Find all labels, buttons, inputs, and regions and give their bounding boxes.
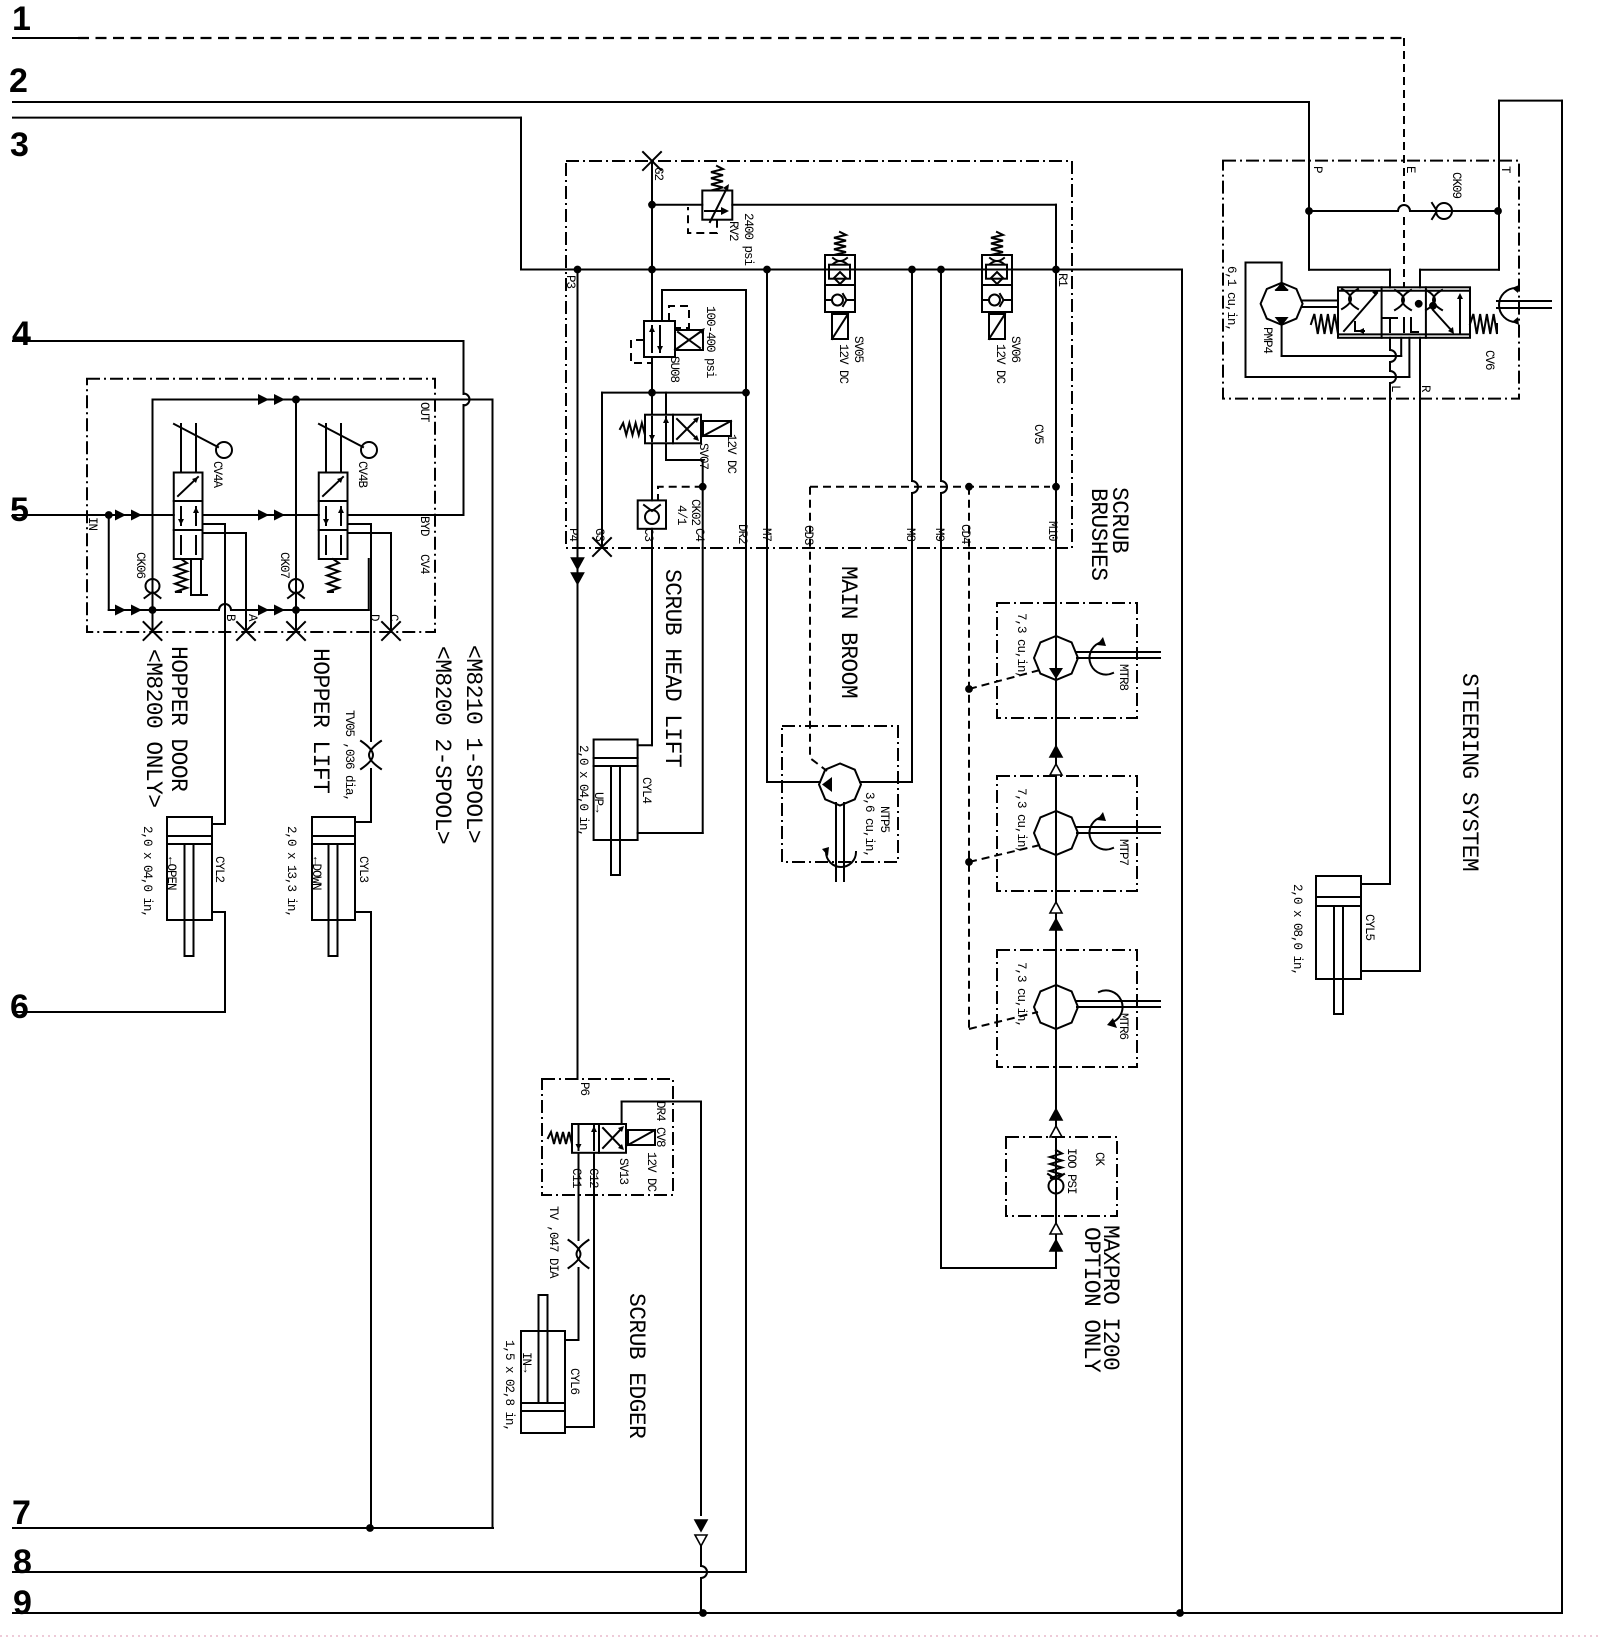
valve SU08 arrows <box>652 326 660 352</box>
solenoid SV13 <box>628 1130 655 1145</box>
wire C3 to CK02 <box>651 443 653 500</box>
svg-text:SCRUB HEAD LIFT: SCRUB HEAD LIFT <box>659 569 685 767</box>
plug port C <box>382 622 400 640</box>
valve SU08 body <box>644 321 675 357</box>
enclosure CV6 <box>1223 161 1519 399</box>
wire B to CYL2 <box>224 632 226 824</box>
valve CV6 envelope <box>1338 287 1470 338</box>
svg-text:STEERING SYSTEM: STEERING SYSTEM <box>1456 673 1482 871</box>
svg-text:HOPPER DOOR: HOPPER DOOR <box>165 646 191 792</box>
wire M8 to NTP5 <box>860 781 912 783</box>
flow arrow DR4 b <box>695 1535 707 1546</box>
wire port D stub <box>348 523 372 525</box>
rotation arrow MTR8 <box>1089 643 1113 675</box>
check valve CK02 body <box>638 500 666 528</box>
valve SV05 <box>825 255 855 312</box>
relief valve RV2 body <box>702 191 732 220</box>
plug G3 <box>593 538 611 556</box>
solenoid SU08 <box>675 330 703 350</box>
svg-text:M8: M8 <box>903 528 917 542</box>
wire line-6 <box>13 1011 225 1013</box>
svg-text:CK09: CK09 <box>1449 172 1463 199</box>
rotation arrow NTP5 <box>826 852 856 867</box>
wire SU08 outlet <box>651 357 653 393</box>
svg-text:CK: CK <box>1092 1152 1106 1167</box>
svg-text:CV4B: CV4B <box>355 461 369 489</box>
wire P3-P4 riser <box>577 270 579 549</box>
pilot CK02 dashed <box>658 487 703 501</box>
svg-text:2: 2 <box>9 62 28 100</box>
svg-text:2,0 x 04,0 in,: 2,0 x 04,0 in, <box>576 745 590 836</box>
svg-text:7,3 cu,in,: 7,3 cu,in, <box>1014 613 1028 678</box>
flow arrows lower gallery mid <box>258 605 269 616</box>
svg-text:P6: P6 <box>577 1082 591 1096</box>
plug port B-CK06 <box>144 622 162 640</box>
relief valve RV2 arrow <box>705 210 725 212</box>
junction G2 bus <box>648 266 656 274</box>
spring CV4A <box>175 559 187 592</box>
svg-text:3,6 cu,in,: 3,6 cu,in, <box>862 792 876 857</box>
wire G3 drop <box>601 393 603 546</box>
pilot SU08 dashed left <box>631 340 652 363</box>
enclosure CK maxpro <box>1006 1137 1117 1216</box>
wire line-3 <box>13 117 521 119</box>
cylinder CYL2 <box>167 817 212 920</box>
lever CV4B <box>325 424 327 473</box>
case drain MTR8 dashed <box>969 670 1040 689</box>
junction C4 pilot <box>699 483 707 491</box>
wire T return right edge <box>1561 101 1563 1613</box>
plug port A <box>237 622 255 640</box>
lever CV4A <box>180 424 182 473</box>
shaft MTP7 <box>1077 826 1160 828</box>
spring RV2 <box>711 166 723 191</box>
motor MTR6 <box>1034 985 1078 1029</box>
svg-text:D: D <box>367 614 381 621</box>
junction M9 bus <box>937 266 945 274</box>
wire E dashed drop <box>1403 38 1405 205</box>
flow arrow chain a1 <box>1050 746 1062 757</box>
svg-text:SV13: SV13 <box>616 1158 630 1185</box>
orifice plug G2 <box>643 152 661 170</box>
wire M9 drop <box>940 270 942 482</box>
svg-text:MTP7: MTP7 <box>1116 839 1130 866</box>
cylinder CYL5 <box>1316 876 1361 979</box>
valve SV07 body <box>645 415 673 444</box>
svg-text:12V DC: 12V DC <box>836 344 850 384</box>
wire line-2 drop P <box>1308 102 1310 270</box>
flow arrow chain b2 <box>1050 919 1062 930</box>
svg-text:CYL4: CYL4 <box>639 777 653 804</box>
enclosure CV4 <box>87 379 435 632</box>
spring CV6 left <box>1311 314 1338 334</box>
motor MTP7 <box>1034 811 1078 855</box>
svg-text:C: C <box>386 614 400 621</box>
enclosure MTR8 <box>997 603 1137 718</box>
flow arrow P4 b <box>572 573 584 584</box>
svg-text:←OPEN: ←OPEN <box>164 857 178 890</box>
spring SV06 <box>991 232 1003 255</box>
valve SV13 crossed arrows <box>603 1128 622 1148</box>
svg-text:G2: G2 <box>651 167 665 181</box>
svg-text:CYL3: CYL3 <box>356 856 370 883</box>
plug port CK07 <box>287 622 305 640</box>
spring SV13 <box>548 1132 572 1144</box>
spring CV6 right <box>1470 314 1497 334</box>
relief valve RV2 adjust <box>710 188 727 222</box>
svg-text:C3: C3 <box>641 528 655 542</box>
wire line-8 <box>13 1571 746 1573</box>
spring SV05 <box>834 232 846 255</box>
spring CV4B <box>327 559 339 592</box>
svg-text:2400 psi: 2400 psi <box>741 213 755 266</box>
wire P4 drop <box>577 548 579 1079</box>
steering wheel shaft <box>1497 300 1551 302</box>
wire lower gallery <box>109 609 219 611</box>
case drain MTP7 dashed <box>969 845 1040 862</box>
rotation arrow MTP7 <box>1089 818 1113 850</box>
flow arrow P4 a <box>572 558 584 569</box>
svg-text:CV6: CV6 <box>1482 350 1496 370</box>
flow arrows lower gallery left <box>115 605 126 616</box>
junction P3 <box>574 266 582 274</box>
flow arrows IN <box>115 510 126 521</box>
wire SV07 feed C4 branch <box>665 393 667 415</box>
junction line-9 / DR4 <box>699 1609 707 1617</box>
svg-text:7: 7 <box>12 1494 31 1532</box>
valve SV13 through arrows <box>579 1126 595 1150</box>
svg-text:<M8200 2-SPOOL>: <M8200 2-SPOOL> <box>429 646 455 844</box>
spring CK <box>1050 1150 1062 1178</box>
svg-text:4: 4 <box>12 315 31 353</box>
flow arrow chain d2 <box>1050 1240 1062 1251</box>
wire C3 drop to CYL4 <box>651 548 653 745</box>
junction line-9 / R1 return <box>1176 1609 1184 1617</box>
wire line-7 <box>13 1527 493 1529</box>
wire C4 step <box>665 443 667 460</box>
cylinder CYL6 <box>521 1331 565 1433</box>
flow arrow chain a2 <box>1050 764 1062 775</box>
case drain manifold CD3-CD4 dashed <box>810 486 1050 488</box>
wire D to TV05 <box>370 632 372 741</box>
valve CV6 junction b <box>1429 302 1437 310</box>
wire RV2 inlet <box>652 204 702 206</box>
check valve CK <box>1049 1179 1064 1194</box>
svg-text:2,0 x 04,0 in,: 2,0 x 04,0 in, <box>140 826 154 917</box>
wire CK07 riser <box>295 400 297 631</box>
wire CK09 line <box>1309 210 1398 212</box>
case drain CD3 dashed <box>810 487 827 771</box>
svg-text:5: 5 <box>10 491 29 529</box>
junction line-7 / CYL3 <box>366 1524 374 1532</box>
svg-text:IOO PSI: IOO PSI <box>1064 1148 1078 1194</box>
junction CK07 lower <box>292 606 300 614</box>
wire T riser <box>1498 101 1500 270</box>
svg-text:12V DC: 12V DC <box>993 344 1007 384</box>
enclosure MTR6 <box>997 950 1137 1067</box>
svg-text:2,0 x 13,3 in,: 2,0 x 13,3 in, <box>284 826 298 917</box>
enclosure MTP7 <box>997 776 1137 891</box>
check valve CK07 <box>289 579 303 593</box>
orifice TV05 <box>361 741 381 769</box>
wire R drop <box>1419 338 1421 399</box>
enclosure NTP5 <box>782 726 898 862</box>
valve CV4B arrows <box>323 477 343 496</box>
svg-text:OUT: OUT <box>417 402 431 423</box>
svg-text:SV06: SV06 <box>1008 336 1022 363</box>
pilot SU08 dashed upper <box>669 306 689 328</box>
svg-text:7,3 cu,in,: 7,3 cu,in, <box>1014 962 1028 1027</box>
shaft MTR8 <box>1077 651 1160 653</box>
wire maxpro return <box>941 1267 1056 1269</box>
wire pressure bus P3-R1 <box>521 269 1182 271</box>
wire port C stub <box>348 532 392 534</box>
svg-text:12V DC: 12V DC <box>644 1152 658 1192</box>
svg-text:CK02: CK02 <box>688 499 702 526</box>
check valve CK02 <box>645 510 659 524</box>
junction T CK09 <box>1494 207 1502 215</box>
cylinder CYL4 <box>594 740 638 841</box>
svg-text:DR4 CV8: DR4 CV8 <box>653 1101 667 1147</box>
wire M7 to NTP5 <box>767 781 820 783</box>
svg-text:CYL6: CYL6 <box>567 1368 581 1395</box>
wire line-1 (dashed supply) <box>13 37 78 39</box>
wire OUT line <box>153 399 493 401</box>
steering wheel arrow <box>1499 288 1516 322</box>
wire pump case line <box>1281 325 1283 356</box>
svg-text:CK06: CK06 <box>133 552 147 579</box>
svg-text:1,5 x 02,8 in,: 1,5 x 02,8 in, <box>502 1340 516 1431</box>
wire CYL2 rod port <box>212 911 225 913</box>
pump shaft <box>1302 300 1338 302</box>
valve CV6 mid spool <box>1383 318 1418 332</box>
valve SV07 through arrows <box>652 417 666 441</box>
svg-text:IN: IN <box>85 517 99 531</box>
svg-text:<M8200 ONLY>: <M8200 ONLY> <box>140 649 166 807</box>
wire CYL4 rod port C4 <box>638 832 703 834</box>
wire TV05 to CYL3 <box>370 769 372 822</box>
svg-text:2,0 x 08,0 in,: 2,0 x 08,0 in, <box>1290 884 1304 975</box>
wire bus to right drop <box>1181 270 1183 1614</box>
detent CV4A <box>191 559 201 595</box>
wire C11 <box>578 1153 580 1240</box>
valve CV4A arrows <box>178 477 198 496</box>
svg-text:CYL5: CYL5 <box>1362 914 1376 941</box>
wire line-4 <box>13 340 464 342</box>
wire C11 to CYL6 <box>578 1268 580 1340</box>
solenoid SV07 <box>703 421 731 436</box>
enclosure CV8 scrub edger <box>542 1079 673 1195</box>
wire pump suction loop <box>1281 263 1283 284</box>
wire L drop <box>1389 338 1391 350</box>
flow arrows OUT <box>258 394 269 405</box>
case drain CD4 dashed riser <box>968 487 970 1029</box>
svg-text:C11: C11 <box>569 1168 583 1188</box>
wire line-3 drop <box>520 118 522 270</box>
junction M7 bus <box>763 266 771 274</box>
flow arrow chain c1 <box>1050 1109 1062 1120</box>
wire line-9 <box>13 1612 1561 1614</box>
svg-text:G3: G3 <box>592 528 606 542</box>
wire port A stub <box>203 532 247 534</box>
svg-text:<M8210 1-SPOOL>: <M8210 1-SPOOL> <box>460 645 486 843</box>
svg-text:E: E <box>1403 166 1417 173</box>
svg-text:1: 1 <box>12 0 31 38</box>
svg-text:TV ,047 DIA: TV ,047 DIA <box>546 1206 560 1279</box>
cylinder CYL3 <box>312 817 355 920</box>
page boundary (pink dotted) <box>0 1635 1600 1637</box>
junction OUT/CK07 <box>292 396 300 404</box>
svg-text:8: 8 <box>13 1543 32 1581</box>
junction CD4 MTR8 <box>965 685 973 693</box>
svg-text:100-400 psi: 100-400 psi <box>703 306 717 378</box>
junction M8 bus <box>908 266 916 274</box>
valve CV6 right section <box>1433 310 1452 331</box>
shaft NTP5 <box>835 803 837 881</box>
svg-text:MAIN BROOM: MAIN BROOM <box>835 566 861 698</box>
svg-text:PMP4: PMP4 <box>1260 327 1274 354</box>
svg-text:OPTION ONLY: OPTION ONLY <box>1078 1227 1104 1373</box>
svg-text:RV2: RV2 <box>726 221 740 241</box>
svg-text:7,3 cu,in,: 7,3 cu,in, <box>1014 788 1028 853</box>
valve SV07 crossed arrows <box>677 419 697 439</box>
wire OUT drop to line-7 <box>492 400 494 1529</box>
wire BYD inside <box>348 514 436 516</box>
svg-text:TV05 ,036 dia,: TV05 ,036 dia, <box>342 710 356 801</box>
valve CV4B body <box>319 473 348 560</box>
wire CV4B bottom feed <box>368 559 370 610</box>
valve CV6 orifice 3 <box>1426 290 1442 310</box>
rotation arrow MTR6 <box>1099 990 1123 1022</box>
junction IN <box>105 511 113 519</box>
svg-text:9: 9 <box>13 1584 32 1622</box>
svg-text:P: P <box>1310 166 1324 173</box>
wire line-4 drop to BYD <box>463 341 465 394</box>
flow arrow chain d1 <box>1050 1223 1062 1234</box>
wire IN lower drop <box>108 515 110 610</box>
svg-text:CK07: CK07 <box>277 552 291 579</box>
svg-text:12V DC: 12V DC <box>724 434 738 474</box>
motor NTP5 <box>819 764 861 806</box>
svg-text:CV5: CV5 <box>1031 424 1045 444</box>
flow arrow chain b1 <box>1050 902 1062 913</box>
shaft MTR6 <box>1077 1000 1160 1002</box>
svg-text:CYL2: CYL2 <box>212 856 226 883</box>
wire CV4A-CV4B mid <box>203 514 319 516</box>
wire port B stub <box>203 523 226 525</box>
case drain MTR6 dashed <box>969 1012 1038 1029</box>
junction RV2 inlet <box>648 201 656 209</box>
flow arrows mid <box>258 510 269 521</box>
pilot RV2 dashed <box>688 207 717 233</box>
svg-text:P3: P3 <box>563 275 577 289</box>
svg-text:CD3: CD3 <box>801 525 815 545</box>
wire RV2 outlet <box>732 204 1056 206</box>
wire T return top <box>1499 100 1562 102</box>
valve CV4A body <box>174 473 203 560</box>
pump PMP4 <box>1261 283 1303 325</box>
wire C12 to CYL6 <box>593 1153 595 1427</box>
wire L to CYL5 <box>1389 399 1391 884</box>
svg-text:C4: C4 <box>692 528 706 542</box>
solenoid SV06 <box>989 314 1005 339</box>
svg-text:CV4A: CV4A <box>210 461 224 489</box>
valve CV6 left section <box>1344 293 1377 331</box>
wire DR4 <box>621 1102 623 1125</box>
wire IN line <box>87 514 174 516</box>
svg-text:4/1: 4/1 <box>674 505 688 525</box>
junction rail C3 <box>648 389 656 397</box>
svg-text:SCRUB EDGER: SCRUB EDGER <box>623 1293 649 1439</box>
svg-text:M9: M9 <box>932 528 946 542</box>
junction CK06 lower <box>149 606 157 614</box>
svg-text:UP→: UP→ <box>591 792 605 813</box>
svg-text:BYD: BYD <box>417 516 431 536</box>
svg-text:SU08: SU08 <box>667 356 681 383</box>
svg-text:IN→: IN→ <box>519 1352 533 1373</box>
svg-text:CV4: CV4 <box>417 554 431 574</box>
junction CD4 top <box>965 483 973 491</box>
wire CK06 riser <box>152 400 154 631</box>
svg-text:MTR6: MTR6 <box>1116 1013 1130 1040</box>
wire line-5 (IN feed) <box>13 514 87 516</box>
wire SV07 feed C3 <box>651 393 653 415</box>
svg-text:SV05: SV05 <box>851 336 865 363</box>
junction CD4 MTP7 <box>965 858 973 866</box>
junction P CK09 <box>1305 207 1313 215</box>
wire RV2 outlet drop R1 <box>1055 205 1057 270</box>
junction M10 CD4 <box>1052 483 1060 491</box>
junction R1 <box>1052 266 1060 274</box>
wire pilot rail G3 <box>602 392 746 394</box>
wire R to CYL5 <box>1419 399 1421 971</box>
svg-text:R1: R1 <box>1055 273 1069 287</box>
motor MTR8 <box>1034 636 1078 680</box>
wire C3 to port <box>651 529 653 548</box>
solenoid SV05 <box>832 314 848 339</box>
spring SV07 <box>620 423 645 435</box>
valve CV6 orifice 1 <box>1342 289 1358 309</box>
junction rail DR2 <box>742 389 750 397</box>
orifice TV 047 <box>569 1240 589 1268</box>
junction OUT node <box>292 396 300 404</box>
wire line-2 <box>13 101 1309 103</box>
wire DR4 to line-9 <box>700 1546 702 1566</box>
check valve CK06 <box>146 579 160 593</box>
wire M10 chain <box>1055 270 1057 1269</box>
svg-text:HOPPER LIFT: HOPPER LIFT <box>307 648 333 793</box>
pump PMP4 triangles <box>1275 282 1289 291</box>
valve CV6 orifice 2 <box>1395 290 1411 310</box>
svg-text:BRUSHES: BRUSHES <box>1085 488 1111 580</box>
svg-text:L: L <box>1388 385 1402 392</box>
wire SU08 bypass loop <box>661 290 663 321</box>
wire M8 drop <box>911 270 913 482</box>
wire P into valve <box>1309 269 1390 271</box>
svg-text:6: 6 <box>10 988 29 1026</box>
wire CYL3 rod port to line-7 <box>355 911 371 913</box>
valve SV06 <box>982 255 1012 312</box>
svg-text:6,1 cu,in,: 6,1 cu,in, <box>1224 266 1238 331</box>
valve CV6 junction a <box>1415 300 1423 308</box>
wire G2 riser <box>651 161 653 321</box>
enclosure CU5 <box>566 161 1072 548</box>
svg-text:3: 3 <box>10 126 29 164</box>
flow arrow chain c2 <box>1050 1126 1062 1137</box>
svg-text:NTP5: NTP5 <box>877 806 891 833</box>
wire M7 drop <box>766 270 768 783</box>
svg-text:MTR8: MTR8 <box>1116 664 1130 691</box>
